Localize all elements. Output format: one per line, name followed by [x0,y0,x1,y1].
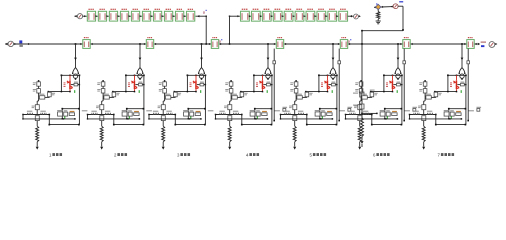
feed circle (block 6) [396,74,400,78]
left branch wire (block 1) [60,75,62,91]
transistor Q7 (red) [456,75,458,80]
feed circle (block 7) [460,74,464,78]
resistor R4 (block 4) [228,126,231,142]
chain1 line section TL10 [87,11,95,21]
inner loop top wire (block 1) [62,108,79,110]
chain2 line section TL26 [306,11,315,21]
antenna feed horn (block 5) [330,68,336,74]
feed circle (block 2) [138,74,142,78]
chain1 line section TL13 [120,11,128,21]
ground arrow (block 1) [36,147,39,150]
resistor R5 (block 5) [293,126,296,142]
top node wire (block 2) [126,74,144,76]
chain1 line section TL15 [142,11,150,21]
green marker 2 (block 7) [450,116,452,118]
chain1 line section TL11 [98,11,106,21]
row wire y97 (block 7) [425,96,436,98]
chain1 source circle [77,14,82,19]
row cap 2 (block 3) [166,111,171,112]
svg-text:9: 9 [348,39,351,44]
chain2 line section TL28 [328,11,337,21]
inner loop top wire (block 6) [385,108,402,110]
emitter node wire (block 7) [435,91,457,93]
row cap 2 (block 4) [233,111,238,112]
emitter node wire (block 1) [48,91,70,93]
transistor Q4 (red) [262,75,264,80]
resistor R6 (block 6) [358,126,361,142]
tap wire down (block 7) [461,44,463,68]
row wire y97 (block 4) [231,96,242,98]
resistor R3 (block 3) [162,126,165,142]
junction on bus (block 7) [461,43,463,45]
row wire y97 (block 6) [361,96,372,98]
attenuator pad comps (block 7) [444,110,449,111]
bias stub wire (block 5) [338,49,340,121]
attenuator pad comps (block 2) [122,110,127,111]
lower link wire (block 3) [149,118,201,120]
series comp below (block 2) [100,116,104,121]
wire arrow right of input port [27,43,29,45]
input row wire (block 4) [216,114,242,116]
attenuator pad comps (block 4) [250,110,255,111]
transistor Q2 (red) [134,75,136,80]
green marker 2 (block 6) [386,116,388,118]
emitter node wire (block 5) [306,91,328,93]
green marker 1 (block 7) [460,90,462,93]
input row wire (block 2) [88,114,114,116]
row cap 1 (block 6) [349,111,354,112]
series comp below (block 4) [228,116,232,121]
ground arrow (block 7) [422,147,425,150]
row cap 1 (block 4) [219,111,224,112]
row cap 2 (block 5) [298,111,303,112]
ground arrow (block 5) [293,147,296,150]
inner loop top wire (block 5) [320,108,337,110]
antenna feed horn (block 6) [395,68,401,74]
chain2 line section TL29 [339,11,348,21]
base blocking cap (block 3) [197,84,200,86]
cap column (block 5) [306,91,308,94]
emitter node wire (block 4) [241,91,263,93]
bus phase-shifter box TL3 [211,40,218,49]
bottom return wire (block 4) [242,124,272,126]
right branch wire (block 6) [401,75,403,124]
right branch wire (block 4) [271,75,273,124]
coupling wire down (block 5) [306,114,308,116]
chain1 line section TL18 [175,11,183,21]
row cap 1 (block 3) [153,111,158,112]
svg-text:1: 1 [49,152,52,157]
bottom return wire (block 2) [114,124,144,126]
svg-text:9: 9 [203,10,206,15]
chain2 line section TL24 [284,11,293,21]
chain2 line section TL25 [295,11,304,21]
base blocking cap (block 1) [71,84,74,86]
chain1 line section TL16 [153,11,161,21]
chain2 line section TL27 [317,11,326,21]
antenna feed horn (block 3) [199,68,205,74]
attenuator pad comps (block 6) [380,110,385,111]
bias divider column (block 4) [230,80,232,82]
bias feed wires [398,5,403,7]
input row wire (block 6) [346,114,372,116]
port 1 (input, blue) [19,40,22,43]
left branch wire (block 4) [253,75,255,91]
coupling wire down (block 1) [49,114,51,116]
inner loop top wire (block 7) [449,108,466,110]
bias stub wire (block 4) [273,49,275,121]
green marker 2 (block 1) [64,116,66,118]
feed circle (block 1) [73,74,77,78]
chain1 line section TL17 [164,11,172,21]
bottom return wire (block 7) [436,124,466,126]
svg-text:7: 7 [438,152,441,157]
bottom return wire (block 6) [372,124,402,126]
row wire y97 (block 1) [39,96,50,98]
ground arrow (block 3) [162,147,165,150]
bottom return wire (block 5) [307,124,337,126]
transistor Q6 (red) [392,75,394,80]
coupling wire down (block 4) [241,114,243,116]
svg-text:9: 9 [219,39,222,44]
left branch wire (block 6) [383,75,385,91]
bias rail ground arrow [360,141,363,144]
inner loop top wire (block 2) [127,108,144,110]
left branch wire (block 3) [186,75,188,91]
input row wire (block 7) [410,114,436,116]
green marker 2 (block 3) [190,116,192,118]
bias divider column (block 1) [38,80,40,82]
antenna feed horn (block 4) [265,68,271,74]
tap wire down (block 3) [201,44,203,68]
base blocking cap (block 6) [393,84,396,86]
base blocking cap (block 5) [328,84,331,86]
tap wire down (block 2) [139,44,141,68]
orange labelled comp (block 3) [196,111,201,112]
cap column (block 3) [174,91,176,94]
left branch wire (block 7) [447,75,449,91]
series comp below (block 3) [161,116,165,121]
bias divider column (block 3) [164,80,166,82]
orange labelled comp (block 1) [70,111,75,112]
orange labelled comp (block 4) [262,111,267,112]
bias rail resistor [361,118,364,137]
inner loop top wire (block 3) [188,108,205,110]
source V1 (left termination) [5,43,8,46]
DC bias source (diamond) [374,6,376,8]
transistor Q3 (red) [195,75,197,80]
right branch wire (block 5) [336,75,338,124]
feed circle (block 3) [199,74,203,78]
bus phase-shifter box TL7 [467,40,474,49]
ground arrow (block 6) [358,147,361,150]
attenuator pad comps (block 1) [57,110,62,111]
right branch wire (block 3) [204,75,206,124]
emitter node wire (block 2) [113,91,135,93]
feed circle (block 4) [266,74,270,78]
left column lower (block 4) [230,97,232,101]
coupling wire down (block 3) [175,114,177,116]
antenna feed horn (block 7) [459,68,465,74]
bias rail comp 2 [353,105,358,106]
row cap 2 (block 6) [363,111,368,112]
series comp below (block 1) [35,116,39,121]
green marker 1 (block 5) [331,90,333,93]
green marker 1 (block 2) [138,90,140,93]
svg-text:6: 6 [373,152,376,157]
junction on bus (block 6) [397,43,399,45]
left column lower (block 2) [102,97,104,101]
resistor R2 (block 2) [100,126,103,142]
green marker 2 (block 5) [321,116,323,118]
row wire y97 (block 3) [165,96,176,98]
resistor R1 (block 1) [36,126,39,142]
cap column (block 7) [435,91,437,94]
bus phase-shifter box TL6 [403,40,410,49]
chain1 line section TL19 [186,11,194,21]
chain2 line section TL20 [241,11,250,21]
transistor Q5 (red) [327,75,329,80]
bias stub wire (block 6) [403,49,405,121]
junction on bus (block 2) [139,43,141,45]
bus phase-shifter box TL4 [276,40,283,49]
lower link wire (block 2) [88,118,140,120]
svg-text:5: 5 [310,152,313,157]
row cap 1 (block 2) [91,111,96,112]
bias resistor R bias [377,10,379,12]
input row wire (block 3) [149,114,175,116]
ground arrow (block 4) [228,147,231,150]
lower link wire (block 7) [410,118,462,120]
input row wire (block 1) [23,114,49,116]
lower link wire (block 1) [23,118,75,120]
right branch wire (block 2) [143,75,145,124]
right branch wire (block 7) [465,75,467,124]
left branch wire (block 2) [125,75,127,91]
bias divider column (block 5) [295,80,297,82]
chain2 line section TL22 [262,11,271,21]
attenuator pad comps (block 5) [315,110,320,111]
chain2 termination circle [354,14,359,19]
coupling wire down (block 6) [371,114,373,116]
svg-text:3: 3 [177,152,180,157]
transistor Q1 (red) [69,75,71,80]
left column lower (block 3) [164,97,166,101]
series comp below (block 7) [422,116,426,121]
top node wire (block 6) [384,74,402,76]
left column lower (block 6) [360,97,362,101]
green marker 1 (block 3) [200,90,202,93]
series comp below (block 5) [293,116,297,121]
tap wire down (block 5) [332,44,334,68]
junction on bus (block 1) [75,43,77,45]
top node wire (block 7) [448,74,466,76]
junction on bus (block 3) [201,43,203,45]
emitter node wire (block 6) [371,91,393,93]
left column lower (block 5) [295,97,297,101]
port 2 (output, blue) [478,43,480,45]
chain1 to bus wire [196,15,207,17]
base blocking cap (block 4) [263,84,266,86]
antenna feed horn (block 2) [137,68,143,74]
chain1 line section TL12 [109,11,117,21]
termination circle right [489,42,495,48]
bottom return wire (block 3) [175,124,205,126]
tap wire down (block 6) [397,44,399,68]
row cap 2 (block 2) [105,111,110,112]
orange labelled comp (block 7) [456,111,461,112]
bias meter [393,4,398,9]
green marker 1 (block 6) [396,90,398,93]
series comp below (block 6) [358,116,362,121]
feed circle (block 5) [331,74,335,78]
chain2 line section TL21 [251,11,260,21]
base blocking cap (block 2) [135,84,138,86]
resistor R7 (block 7) [422,126,425,142]
green marker 1 (block 1) [74,90,76,93]
green marker 2 (block 2) [128,116,130,118]
chain2 line section TL23 [273,11,282,21]
bias rail stub right [361,113,363,115]
bias divider column (block 2) [102,80,104,82]
wire bus up to chain2 [229,16,230,17]
green marker 1 (block 4) [266,90,268,93]
bias wire to meter [381,6,393,8]
left column lower (block 7) [424,97,426,101]
row cap 1 (block 7) [413,111,418,112]
row cap 1 (block 1) [27,111,32,112]
bias stub wire (block 7) [467,49,469,121]
orange labelled comp (block 2) [134,111,139,112]
antenna feed horn (block 1) [73,68,79,74]
bias feed rail down [361,44,363,118]
cap column (block 4) [241,91,243,94]
lower link wire (block 6) [346,118,398,120]
bias divider column (block 6) [360,80,362,82]
bus phase-shifter box TL1 [83,40,90,49]
bus phase-shifter box TL2 [146,40,153,49]
coupling wire down (block 2) [113,114,115,116]
left source circle [8,41,13,46]
chain2 termination [348,15,354,17]
main feed bus wire [13,43,477,45]
lower link wire (block 4) [216,118,268,120]
wire chain1 down to bus [206,16,207,17]
right branch wire (block 1) [78,75,80,124]
ground (bias resistor) [376,20,381,22]
left branch wire (block 5) [318,75,320,91]
cap column (block 2) [113,91,115,94]
input row wire (block 5) [281,114,307,116]
svg-text:2: 2 [114,152,117,157]
junction on bus (block 4) [267,43,269,45]
bias divider column (block 7) [424,80,426,82]
top node wire (block 5) [319,74,337,76]
row wire y97 (block 5) [296,96,307,98]
top node wire (block 3) [187,74,205,76]
orange labelled comp (block 5) [327,111,332,112]
ground arrow (block 2) [100,147,103,150]
bottom return wire (block 1) [49,124,79,126]
chain1 line section TL14 [131,11,139,21]
tap wire down (block 1) [75,44,77,68]
top node wire (block 4) [254,74,272,76]
top node wire (block 1) [61,74,79,76]
junction on bus (block 5) [332,43,334,45]
green marker 2 (block 4) [256,116,258,118]
row cap 2 (block 1) [40,111,45,112]
svg-text:4: 4 [246,152,249,157]
base blocking cap (block 7) [457,84,460,86]
bias rail comp 1 [353,93,358,94]
inner loop top wire (block 4) [255,108,272,110]
tap wire down (block 4) [267,44,269,68]
cap column (block 6) [371,91,373,94]
lower link wire (block 5) [281,118,333,120]
left column lower (block 1) [38,97,40,101]
coupling wire down (block 7) [435,114,437,116]
row cap 1 (block 5) [284,111,289,112]
orange labelled comp (block 6) [392,111,397,112]
attenuator pad comps (block 3) [183,110,188,111]
cap column (block 1) [48,91,50,94]
row cap 2 (block 7) [427,111,432,112]
top-left delay-line chain source [74,15,76,17]
bus phase-shifter box TL5 [340,40,347,49]
row wire y97 (block 2) [103,96,114,98]
emitter node wire (block 3) [174,91,196,93]
